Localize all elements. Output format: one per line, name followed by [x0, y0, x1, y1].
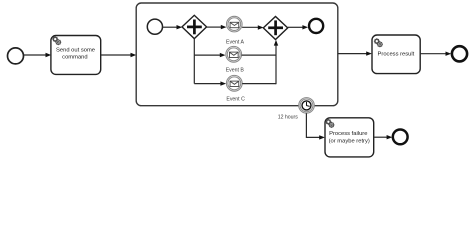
task Send out some command: [51, 36, 101, 75]
end event (failure path): [393, 130, 408, 145]
svg-text:Event A: Event A: [226, 39, 244, 45]
wire subprocess to task Process result: [338, 53, 367, 55]
wire gateway1 to event A: [207, 26, 222, 28]
wire task1 to subprocess: [101, 54, 132, 56]
wire split to event B: [194, 54, 221, 56]
wire gateway1 down-split: [193, 39, 195, 84]
wire task Process result to end event: [420, 53, 446, 55]
wire event C to join riser: [242, 83, 276, 85]
svg-text:Event B: Event B: [226, 68, 245, 74]
parallel gateway 2 (join): [263, 17, 287, 40]
message event B: [226, 46, 242, 62]
end event (main): [452, 46, 467, 61]
task Process failure (or maybe retry): [325, 118, 374, 157]
svg-text:command: command: [62, 55, 87, 61]
svg-text:Process failure: Process failure: [329, 131, 367, 137]
wire start2 to gateway1: [163, 26, 178, 28]
wire split to event C: [194, 83, 221, 85]
wire join riser into gateway2: [275, 44, 277, 84]
wire event B to join riser: [242, 54, 276, 56]
subprocess container: [136, 3, 338, 106]
message event C: [226, 75, 242, 91]
parallel gateway 1 (split): [182, 15, 207, 38]
svg-text:Process result: Process result: [378, 52, 415, 58]
svg-text:(or maybe retry): (or maybe retry): [329, 138, 370, 144]
svg-text:12 hours: 12 hours: [278, 115, 299, 121]
start event: [8, 48, 24, 64]
wire task Process failure to end event: [374, 136, 388, 138]
wire timer to task Process failure: [306, 113, 320, 137]
wire event A to gateway2: [242, 26, 259, 28]
svg-text:Send out some: Send out some: [56, 48, 95, 54]
task Process result: [372, 35, 420, 74]
start event (subprocess): [147, 19, 162, 34]
wire start to task1: [24, 54, 46, 56]
svg-text:Event C: Event C: [226, 96, 245, 102]
end event (subprocess): [309, 19, 323, 33]
message event A: [227, 16, 243, 32]
timer boundary event: [299, 98, 315, 114]
wire gateway2 to end2: [288, 26, 304, 28]
